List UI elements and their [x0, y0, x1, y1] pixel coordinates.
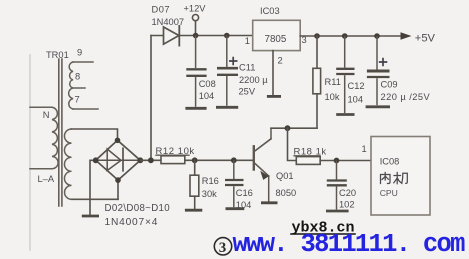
wire bridge right vertex to base row	[140, 159, 161, 161]
node C09 top	[374, 33, 380, 39]
node C12 top	[342, 33, 348, 39]
svg-text:L–A: L–A	[38, 174, 55, 184]
capacitor C08	[185, 36, 206, 109]
svg-text:TR01: TR01	[46, 50, 69, 60]
node R16 top	[192, 157, 198, 163]
resistor R16	[194, 160, 196, 175]
node bridge bottom	[115, 177, 121, 183]
resistor R11	[316, 36, 318, 68]
IC03 7805 box	[253, 20, 301, 50]
svg-text:7805: 7805	[265, 34, 287, 45]
svg-text:1N4007×4: 1N4007×4	[105, 217, 159, 228]
secondary upper winding pins 9/8/7	[69, 62, 98, 109]
node R11 top	[314, 33, 320, 39]
ground bridge	[82, 215, 99, 218]
svg-text:1N4007: 1N4007	[152, 17, 185, 27]
svg-text:C16: C16	[236, 188, 253, 198]
ground IC03	[267, 95, 281, 98]
svg-text:104: 104	[348, 95, 364, 105]
node C08 top	[193, 33, 199, 39]
emitter arrowhead	[260, 171, 269, 180]
svg-text:D07: D07	[152, 4, 171, 14]
capacitor C16	[225, 160, 244, 208]
svg-text:8050: 8050	[276, 188, 297, 198]
ground Q01 emitter	[261, 201, 278, 204]
primary winding N / L-A	[30, 107, 58, 168]
wire secondary top to bridge top vertex	[72, 129, 118, 140]
collector rail	[271, 127, 317, 129]
wire R18 to IC08 pin1	[320, 160, 371, 162]
svg-text:C11: C11	[239, 62, 255, 72]
svg-text:Q01: Q01	[276, 171, 294, 181]
watermark circled 3	[214, 238, 231, 255]
capacitor C11	[216, 36, 238, 108]
svg-text:25V: 25V	[239, 87, 256, 97]
wire bridge left vertex to ground	[90, 160, 96, 215]
svg-text:R16: R16	[202, 176, 219, 186]
node C11 top	[224, 33, 230, 39]
page fold artifact line	[29, 55, 31, 250]
node C16 top	[231, 157, 237, 163]
svg-text:+12V: +12V	[184, 4, 207, 14]
node C20 top	[334, 158, 340, 164]
+5V rail	[300, 35, 400, 37]
transformer TR01 core	[59, 59, 62, 206]
node bridge top	[115, 138, 121, 144]
svg-text:2200 µ: 2200 µ	[239, 75, 268, 85]
wire bridge bottom vertex down	[117, 180, 119, 199]
svg-text:7: 7	[75, 95, 80, 105]
bridge inner diode	[96, 148, 141, 171]
svg-text:C20: C20	[339, 188, 356, 198]
svg-text:1: 1	[362, 144, 367, 154]
svg-text:C12: C12	[348, 81, 365, 91]
svg-text:R11: R11	[325, 77, 341, 87]
svg-text:3: 3	[219, 240, 227, 256]
ground R16	[185, 209, 202, 212]
resistor R18	[288, 128, 297, 160]
svg-text:220 µ /25V: 220 µ /25V	[381, 92, 431, 102]
+5V arrow	[401, 32, 412, 39]
svg-text:30k: 30k	[202, 189, 217, 199]
node bridge right	[137, 157, 143, 163]
wire rail down from D07 rail to base row	[150, 36, 152, 161]
node junction x151	[148, 157, 154, 163]
capacitor C09	[366, 36, 390, 107]
内机 hand-drawn	[381, 173, 408, 184]
diode D07	[164, 26, 180, 46]
svg-text:104: 104	[236, 200, 252, 210]
secondary lower winding	[64, 129, 71, 199]
node collector junction	[285, 125, 291, 131]
wire secondary bottom to bridge bottom	[72, 198, 119, 200]
svg-text:D02\D08~D10: D02\D08~D10	[105, 203, 171, 214]
svg-text:C08: C08	[199, 79, 216, 89]
wire D07 rail	[151, 35, 253, 37]
svg-text:2: 2	[278, 56, 283, 66]
svg-text:10k: 10k	[325, 92, 340, 102]
transistor Q01	[254, 128, 271, 201]
IC08 CPU box	[371, 137, 430, 216]
svg-text:102: 102	[339, 199, 355, 209]
capacitor C12	[336, 36, 354, 115]
svg-text:+5V: +5V	[415, 33, 436, 45]
IC03 pin2 wire	[272, 51, 274, 95]
svg-text:IC08: IC08	[380, 156, 400, 166]
svg-text:104: 104	[199, 91, 215, 101]
svg-text:8: 8	[75, 72, 80, 82]
svg-text:C09: C09	[381, 80, 398, 90]
svg-text:www. 3811111. com: www. 3811111. com	[233, 230, 466, 259]
+12V terminal	[192, 15, 198, 21]
wire R12 to base	[185, 159, 253, 161]
svg-text:9: 9	[77, 48, 82, 58]
svg-text:CPU: CPU	[380, 188, 398, 198]
svg-text:IC03: IC03	[260, 6, 280, 16]
node bridge left	[93, 157, 99, 163]
svg-text:1: 1	[245, 36, 250, 46]
capacitor C20	[326, 161, 349, 212]
svg-text:N: N	[43, 110, 50, 120]
bridge rectifier D02\D08~D10 diamond	[96, 140, 141, 180]
